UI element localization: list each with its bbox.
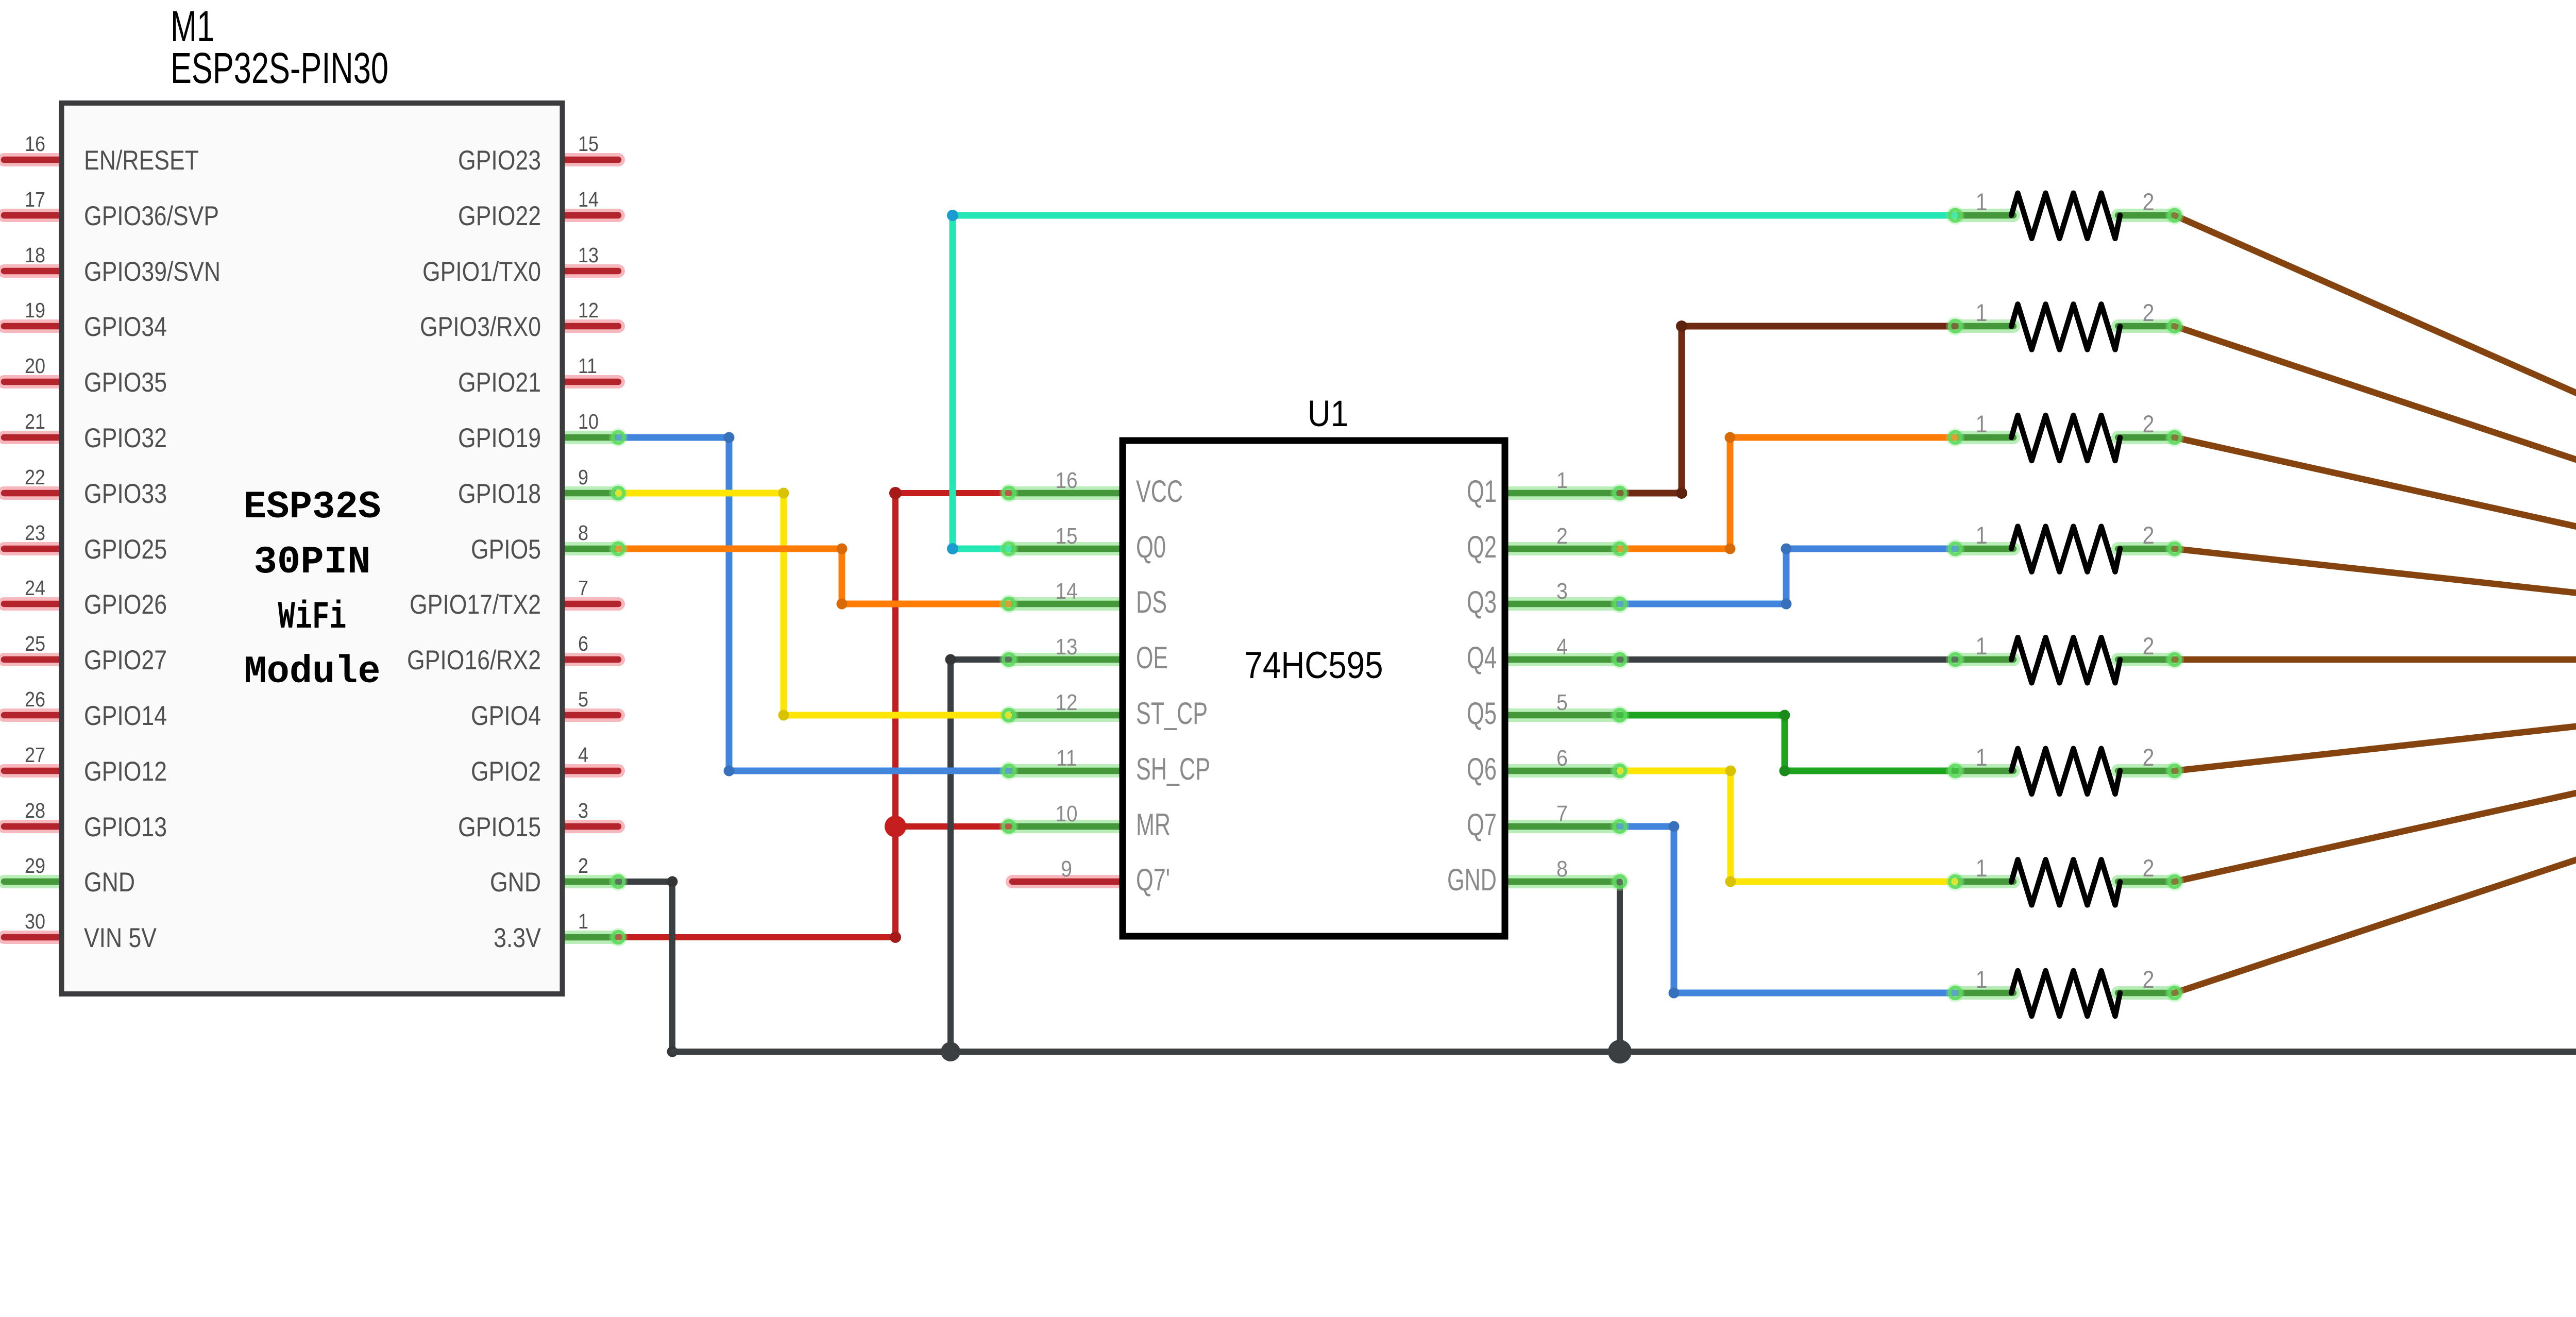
terminal R7 pin 2: [2165, 872, 2184, 891]
svg-text:1: 1: [1976, 744, 1988, 771]
pin 16 EN/RESET label (M1 left): [25, 132, 199, 176]
svg-text:27: 27: [25, 743, 45, 767]
wire net GND: M1 GND drop to bus (dark gray): [618, 876, 678, 1057]
pin 3 Q3 stub (U1 right): [1502, 597, 1620, 611]
pin 28 GPIO13 stub (M1 left): [4, 820, 64, 833]
resistor R4: [1955, 521, 2175, 572]
wire U1 Q0 to R1 (cyan): [947, 210, 1955, 554]
svg-text:1: 1: [1976, 410, 1988, 437]
wire GPIO18 to U1 ST_CP (yellow): [618, 488, 1009, 721]
pin 2 GND stub (M1 right): [561, 875, 618, 888]
svg-text:22: 22: [25, 465, 45, 489]
svg-text:GPIO34: GPIO34: [84, 312, 167, 342]
pin 22 GPIO33 label (M1 left): [25, 465, 167, 509]
pin 5 Q5 stub (U1 right): [1502, 708, 1620, 722]
pin 11 SH_CP label (U1 left): [1056, 746, 1210, 786]
svg-text:VIN 5V: VIN 5V: [84, 923, 157, 953]
terminal R1 pin 1: [1946, 206, 1964, 225]
svg-text:Q4: Q4: [1467, 640, 1497, 675]
pin 6 Q6 label (U1 right): [1467, 746, 1568, 786]
terminal R5 pin 1: [1946, 650, 1964, 669]
svg-text:GPIO32: GPIO32: [84, 423, 167, 453]
wire U1 Q6 to R7 (yellow): [1620, 766, 1955, 887]
pin 10 MR stub (U1 left): [1009, 820, 1126, 833]
svg-text:11: 11: [1056, 746, 1077, 771]
svg-text:GPIO15: GPIO15: [458, 812, 541, 842]
svg-text:GPIO1/TX0: GPIO1/TX0: [422, 257, 541, 287]
svg-text:2: 2: [2143, 410, 2155, 437]
pin 19 GPIO34 label (M1 left): [25, 298, 167, 342]
pin 20 GPIO35 label (M1 left): [25, 354, 167, 398]
pin 5 GPIO4 stub (M1 right): [561, 708, 618, 722]
terminal U1 pin 12: [999, 706, 1018, 724]
svg-text:ESP32S-PIN30: ESP32S-PIN30: [171, 44, 388, 92]
pin 14 GPIO22 label (M1 right): [458, 188, 599, 231]
svg-text:GPIO22: GPIO22: [458, 201, 541, 231]
svg-text:3: 3: [578, 799, 588, 822]
terminal U1 pin 10: [999, 817, 1018, 836]
svg-text:5: 5: [1556, 690, 1568, 715]
terminal R3 pin 1: [1946, 428, 1964, 447]
pin 3 GPIO15 stub (M1 right): [561, 820, 618, 833]
svg-text:2: 2: [1556, 524, 1568, 549]
pin 25 GPIO27 stub (M1 left): [4, 653, 64, 666]
svg-text:10: 10: [1056, 801, 1078, 826]
svg-text:2: 2: [2143, 854, 2155, 882]
svg-text:11: 11: [578, 354, 597, 378]
terminal R2 pin 2: [2165, 317, 2184, 335]
wire R7 to display pin G (brown): [2175, 771, 2576, 882]
svg-text:2: 2: [2143, 966, 2155, 993]
junction net GND at U1 riser: [1608, 1040, 1632, 1063]
svg-text:30PIN: 30PIN: [254, 541, 371, 584]
svg-text:19: 19: [25, 298, 45, 322]
pin 1 Q1 label (U1 right): [1467, 468, 1568, 509]
pin 24 GPIO26 label (M1 left): [25, 576, 167, 620]
svg-text:74HC595: 74HC595: [1245, 645, 1383, 686]
svg-text:GPIO27: GPIO27: [84, 645, 167, 676]
wire net 3V3: M1 3.3V to U1 VCC (red): [618, 487, 1009, 943]
svg-text:GPIO35: GPIO35: [84, 367, 167, 398]
svg-text:13: 13: [1056, 634, 1078, 660]
pin 12 GPIO3/RX0 label (M1 right): [420, 298, 599, 342]
pin 9 GPIO18 label (M1 right): [458, 465, 588, 509]
svg-text:MR: MR: [1136, 807, 1171, 842]
svg-text:GPIO21: GPIO21: [458, 367, 541, 398]
resistor R2: [1955, 299, 2175, 349]
terminal M1 pin 2: [609, 872, 628, 891]
svg-text:6: 6: [1556, 746, 1568, 771]
svg-text:21: 21: [25, 410, 45, 433]
pin 13 GPIO1/TX0 stub (M1 right): [561, 264, 618, 278]
IC U1 74HC595 body: [1123, 441, 1505, 936]
pin 17 GPIO36/SVP label (M1 left): [25, 188, 219, 231]
pin 30 VIN 5V stub (M1 left): [4, 931, 64, 944]
svg-text:WiFi: WiFi: [278, 596, 347, 639]
terminal M1 pin 10: [609, 428, 628, 447]
pin 18 GPIO39/SVN stub (M1 left): [4, 264, 64, 278]
pin 15 Q0 stub (U1 left): [1009, 542, 1126, 555]
pin 25 GPIO27 label (M1 left): [25, 632, 167, 676]
svg-text:GND: GND: [1447, 863, 1497, 897]
label U1: [1308, 394, 1348, 434]
pin 22 GPIO33 stub (M1 left): [4, 486, 64, 500]
pin 2 Q2 stub (U1 right): [1502, 542, 1620, 555]
svg-text:EN/RESET: EN/RESET: [84, 145, 199, 176]
svg-text:1: 1: [1976, 966, 1988, 993]
resistor R7: [1955, 854, 2175, 905]
pin 19 GPIO34 stub (M1 left): [4, 319, 64, 333]
pin 4 Q4 stub (U1 right): [1502, 653, 1620, 666]
svg-text:GPIO17/TX2: GPIO17/TX2: [410, 589, 541, 620]
wire R4 to display pin D (brown): [2175, 549, 2576, 604]
resistor R8: [1955, 966, 2175, 1016]
svg-text:8: 8: [1556, 856, 1568, 882]
svg-text:GPIO25: GPIO25: [84, 534, 167, 565]
terminal M1 pin 8: [609, 539, 628, 558]
terminal U1 pin 14: [999, 595, 1018, 613]
pin 26 GPIO14 label (M1 left): [25, 687, 167, 731]
pin 14 GPIO22 stub (M1 right): [561, 209, 618, 222]
pin 16 VCC label (U1 left): [1056, 468, 1183, 509]
svg-text:20: 20: [25, 354, 45, 378]
pin 27 GPIO12 stub (M1 left): [4, 764, 64, 778]
svg-text:U1: U1: [1308, 394, 1348, 434]
svg-text:7: 7: [578, 576, 588, 600]
svg-text:23: 23: [25, 521, 45, 545]
pin 7 Q7 stub (U1 right): [1502, 820, 1620, 833]
pin 9 Q7&#39; label (U1 left): [1061, 856, 1170, 897]
terminal R6 pin 1: [1946, 762, 1964, 780]
resistor R6: [1955, 744, 2175, 794]
pin 20 GPIO35 stub (M1 left): [4, 375, 64, 389]
svg-text:GPIO18: GPIO18: [458, 479, 541, 509]
svg-text:3.3V: 3.3V: [494, 923, 541, 953]
svg-text:OE: OE: [1136, 640, 1168, 675]
wire net 3V3 branch to U1 MR (red): [895, 823, 1009, 830]
pin 1 Q1 stub (U1 right): [1502, 486, 1620, 500]
svg-text:Module: Module: [244, 650, 381, 694]
pin 28 GPIO13 label (M1 left): [25, 799, 167, 842]
svg-text:DS: DS: [1136, 585, 1167, 619]
pin 17 GPIO36/SVP stub (M1 left): [4, 209, 64, 222]
terminal R3 pin 2: [2165, 428, 2184, 447]
pin 6 GPIO16/RX2 label (M1 right): [407, 632, 588, 676]
pin 14 DS stub (U1 left): [1009, 597, 1126, 611]
wire R2 to display pin B (brown): [2175, 326, 2576, 493]
svg-text:GPIO16/RX2: GPIO16/RX2: [407, 645, 541, 676]
svg-text:GND: GND: [490, 867, 541, 898]
pin 4 GPIO2 stub (M1 right): [561, 764, 618, 778]
svg-text:1: 1: [1976, 521, 1988, 549]
svg-text:7: 7: [1556, 801, 1568, 826]
pin 23 GPIO25 stub (M1 left): [4, 542, 64, 555]
pin 13 OE label (U1 left): [1056, 634, 1168, 675]
pin 11 GPIO21 stub (M1 right): [561, 375, 618, 389]
svg-text:14: 14: [578, 188, 599, 211]
pin 15 GPIO23 label (M1 right): [458, 132, 599, 176]
pin 8 GPIO5 label (M1 right): [471, 521, 588, 565]
terminal U1 pin 6: [1611, 762, 1629, 780]
svg-text:ESP32S: ESP32S: [244, 485, 381, 529]
svg-text:15: 15: [1056, 524, 1078, 549]
wire GPIO5 to U1 DS (orange): [618, 544, 1009, 610]
pin 5 Q5 label (U1 right): [1467, 690, 1568, 731]
wire net GND bus (dark gray): [672, 1049, 2576, 1055]
value 74HC595: [1245, 645, 1383, 686]
svg-text:16: 16: [1056, 468, 1078, 493]
terminal R8 pin 2: [2165, 984, 2184, 1002]
pin 30 VIN 5V label (M1 left): [25, 909, 157, 953]
wire U1 Q2 to R3 (orange): [1620, 432, 1955, 554]
svg-text:GPIO12: GPIO12: [84, 756, 167, 787]
pin 15 GPIO23 stub (M1 right): [561, 153, 618, 166]
module M1 ESP32S-PIN30 body: [62, 103, 563, 994]
svg-text:2: 2: [2143, 299, 2155, 326]
pin 9 GPIO18 stub (M1 right): [561, 486, 618, 500]
svg-text:GPIO5: GPIO5: [471, 534, 541, 565]
pin 14 DS label (U1 left): [1056, 579, 1167, 619]
pin 16 EN/RESET stub (M1 left): [4, 153, 64, 166]
terminal U1 pin 13: [999, 650, 1018, 669]
terminal U1 pin 3: [1611, 595, 1629, 613]
svg-text:8: 8: [578, 521, 588, 545]
svg-text:GND: GND: [84, 867, 135, 898]
svg-text:GPIO23: GPIO23: [458, 145, 541, 176]
terminal R2 pin 1: [1946, 317, 1964, 335]
svg-text:30: 30: [25, 909, 45, 933]
pin 27 GPIO12 label (M1 left): [25, 743, 167, 787]
svg-text:26: 26: [25, 687, 45, 711]
pin 4 Q4 label (U1 right): [1467, 634, 1568, 675]
terminal U1 pin 15: [999, 539, 1018, 558]
svg-text:ST_CP: ST_CP: [1136, 696, 1208, 731]
terminal U1 pin 2: [1611, 539, 1629, 558]
pin 23 GPIO25 label (M1 left): [25, 521, 167, 565]
svg-text:Q7': Q7': [1136, 863, 1170, 897]
svg-text:Q0: Q0: [1136, 530, 1166, 564]
terminal R1 pin 2: [2165, 206, 2184, 225]
svg-text:GPIO14: GPIO14: [84, 701, 167, 731]
svg-text:Q6: Q6: [1467, 752, 1497, 786]
pin 10 GPIO19 stub (M1 right): [561, 431, 618, 444]
pin 21 GPIO32 label (M1 left): [25, 410, 167, 453]
pin 11 GPIO21 label (M1 right): [458, 354, 597, 398]
junction net GND at OE riser: [941, 1042, 960, 1061]
svg-text:3: 3: [1556, 579, 1568, 604]
wire U1 Q3 to R4 (blue): [1620, 544, 1955, 610]
wire net GND riser to U1 GND (dark gray): [1617, 882, 1623, 1052]
terminal U1 pin 4: [1611, 650, 1629, 669]
svg-text:1: 1: [1976, 188, 1988, 215]
svg-text:14: 14: [1056, 579, 1078, 604]
wire U1 Q4 to R5 (dark gray): [1620, 656, 1955, 663]
svg-text:28: 28: [25, 799, 45, 822]
wire U1 Q7 to R8 (blue): [1620, 821, 1955, 999]
resistor R1: [1955, 188, 2175, 239]
svg-text:25: 25: [25, 632, 45, 655]
pin 1 3.3V label (M1 right): [494, 909, 588, 953]
terminal R8 pin 1: [1946, 984, 1964, 1002]
terminal M1 pin 1: [609, 928, 628, 947]
svg-text:1: 1: [1556, 468, 1568, 493]
pin 6 Q6 stub (U1 right): [1502, 764, 1620, 778]
terminal U1 pin 1: [1611, 484, 1629, 502]
pin 21 GPIO32 stub (M1 left): [4, 431, 64, 444]
wire U1 Q1 to R2 (dark brown): [1620, 320, 1955, 499]
svg-text:1: 1: [1976, 854, 1988, 882]
pin 8 GPIO5 stub (M1 right): [561, 542, 618, 555]
svg-text:2: 2: [578, 854, 588, 877]
wire GPIO19 to U1 SH_CP (blue): [618, 432, 1009, 776]
svg-text:GPIO19: GPIO19: [458, 423, 541, 453]
svg-text:4: 4: [1556, 634, 1568, 660]
terminal R4 pin 2: [2165, 539, 2184, 558]
label ESP32S 30PIN WiFi Module: [244, 485, 381, 694]
svg-text:9: 9: [1061, 856, 1072, 882]
svg-text:GPIO13: GPIO13: [84, 812, 167, 842]
svg-text:Q3: Q3: [1467, 585, 1497, 619]
pin 8 GND label (U1 right): [1447, 856, 1568, 897]
svg-text:13: 13: [578, 243, 599, 267]
pin 3 Q3 label (U1 right): [1467, 579, 1568, 619]
pin 11 SH_CP stub (U1 left): [1009, 764, 1126, 778]
wire R6 to display pin F (brown): [2175, 715, 2576, 771]
wire R5 to display pin E (brown): [2175, 656, 2576, 663]
terminal U1 pin 11: [999, 762, 1018, 780]
svg-text:1: 1: [578, 909, 588, 933]
svg-text:Q1: Q1: [1467, 474, 1497, 509]
junction net 3V3 at MR row: [885, 816, 906, 837]
svg-text:10: 10: [578, 410, 599, 433]
pin 2 GND label (M1 right): [490, 854, 588, 898]
pin 3 GPIO15 label (M1 right): [458, 799, 588, 842]
pin 18 GPIO39/SVN label (M1 left): [25, 243, 221, 287]
pin 12 ST_CP stub (U1 left): [1009, 708, 1126, 722]
svg-text:GPIO36/SVP: GPIO36/SVP: [84, 201, 219, 231]
svg-text:2: 2: [2143, 632, 2155, 660]
svg-text:12: 12: [1056, 690, 1078, 715]
svg-text:GPIO3/RX0: GPIO3/RX0: [420, 312, 541, 342]
pin 6 GPIO16/RX2 stub (M1 right): [561, 653, 618, 666]
terminal R5 pin 2: [2165, 650, 2184, 669]
pin 1 3.3V stub (M1 right): [561, 931, 618, 944]
terminal U1 pin 16: [999, 484, 1018, 502]
terminal M1 pin 9: [609, 484, 628, 502]
terminal R6 pin 2: [2165, 762, 2184, 780]
svg-text:Q7: Q7: [1467, 807, 1497, 842]
pin 12 ST_CP label (U1 left): [1056, 690, 1208, 731]
svg-text:17: 17: [25, 188, 45, 211]
wire U1 Q5 to R6 (green): [1620, 710, 1955, 776]
svg-text:GPIO4: GPIO4: [471, 701, 541, 731]
pin 24 GPIO26 stub (M1 left): [4, 597, 64, 611]
svg-text:1: 1: [1976, 632, 1988, 660]
svg-text:24: 24: [25, 576, 45, 600]
terminal U1 pin 8: [1611, 872, 1629, 891]
wire R1 to display pin A (brown): [2175, 215, 2576, 437]
pin 15 Q0 label (U1 left): [1056, 524, 1166, 564]
pin 29 GND label (M1 left): [25, 854, 135, 898]
svg-text:12: 12: [578, 298, 599, 322]
pin 13 OE stub (U1 left): [1009, 653, 1126, 666]
svg-text:18: 18: [25, 243, 45, 267]
svg-text:Q2: Q2: [1467, 530, 1497, 564]
pin 16 VCC stub (U1 left): [1009, 486, 1126, 500]
pin 5 GPIO4 label (M1 right): [471, 687, 588, 731]
pin 4 GPIO2 label (M1 right): [471, 743, 588, 787]
pin 26 GPIO14 stub (M1 left): [4, 708, 64, 722]
pin 9 Q7&#39; stub (U1 left): [1012, 875, 1126, 888]
svg-text:2: 2: [2143, 744, 2155, 771]
pin 2 Q2 label (U1 right): [1467, 524, 1568, 564]
wire R3 to display pin C (brown): [2175, 437, 2576, 549]
svg-text:9: 9: [578, 465, 588, 489]
svg-text:16: 16: [25, 132, 45, 156]
pin 10 MR label (U1 left): [1056, 801, 1171, 842]
pin 7 GPIO17/TX2 label (M1 right): [410, 576, 588, 620]
svg-text:4: 4: [578, 743, 588, 767]
wire net GND riser to U1 OE (dark gray): [945, 654, 1009, 1052]
svg-text:29: 29: [25, 854, 45, 877]
svg-text:GPIO2: GPIO2: [471, 756, 541, 787]
pin 7 GPIO17/TX2 stub (M1 right): [561, 597, 618, 611]
terminal U1 pin 7: [1611, 817, 1629, 836]
svg-text:M1: M1: [171, 2, 214, 50]
svg-text:2: 2: [2143, 188, 2155, 215]
svg-text:GPIO39/SVN: GPIO39/SVN: [84, 257, 221, 287]
terminal R7 pin 1: [1946, 872, 1964, 891]
terminal R4 pin 1: [1946, 539, 1964, 558]
svg-text:SH_CP: SH_CP: [1136, 752, 1210, 786]
pin 29 GND stub (M1 left): [4, 875, 64, 888]
svg-text:15: 15: [578, 132, 599, 156]
svg-text:Q5: Q5: [1467, 696, 1497, 731]
svg-text:VCC: VCC: [1136, 474, 1183, 509]
wire R8 to display pin DP (brown): [2175, 826, 2576, 993]
svg-text:GPIO33: GPIO33: [84, 479, 167, 509]
svg-text:2: 2: [2143, 521, 2155, 549]
resistor R5: [1955, 632, 2175, 683]
pin 12 GPIO3/RX0 stub (M1 right): [561, 319, 618, 333]
svg-text:6: 6: [578, 632, 588, 655]
terminal U1 pin 5: [1611, 706, 1629, 724]
pin 13 GPIO1/TX0 label (M1 right): [422, 243, 599, 287]
resistor R3: [1955, 410, 2175, 461]
pin 10 GPIO19 label (M1 right): [458, 410, 599, 453]
svg-text:5: 5: [578, 687, 588, 711]
label M1 / ESP32S-PIN30: [171, 2, 388, 92]
svg-text:1: 1: [1976, 299, 1988, 326]
pin 7 Q7 label (U1 right): [1467, 801, 1568, 842]
svg-text:GPIO26: GPIO26: [84, 589, 167, 620]
pin 8 GND stub (U1 right): [1502, 875, 1620, 888]
